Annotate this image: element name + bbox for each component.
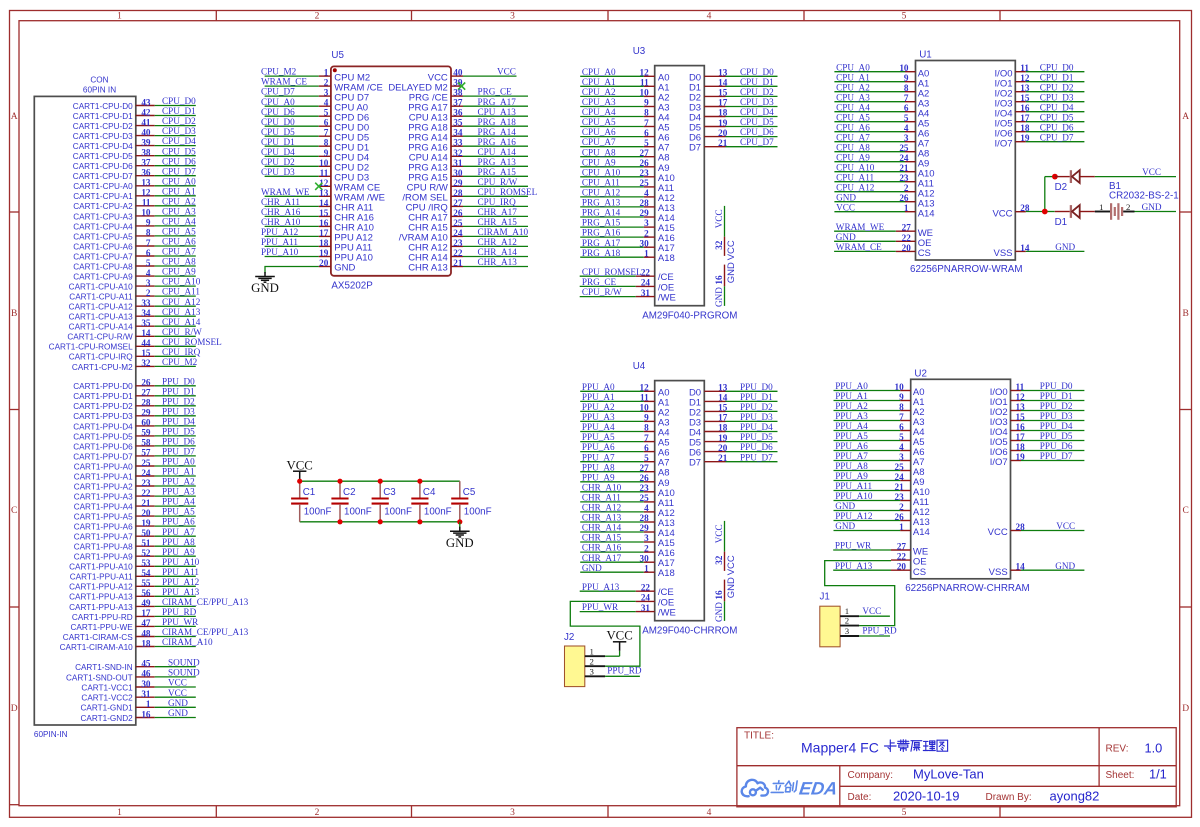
svg-text:CPU_M2: CPU_M2 [261, 67, 297, 77]
SRAM U2 62256PNARROW-CHRRAM body [905, 368, 1029, 594]
svg-text:CART1-GND2: CART1-GND2 [81, 714, 134, 723]
svg-text:1: 1 [117, 12, 122, 22]
svg-text:PRG_A16: PRG_A16 [582, 228, 621, 238]
op-amp/mapper IC U5 AX5202P body [331, 50, 451, 292]
U5 pin 7 CPU D5 [261, 127, 369, 144]
svg-text:C: C [11, 506, 17, 516]
CON pin 4 wire net CPU_A9 [73, 267, 196, 282]
svg-text:31: 31 [453, 158, 463, 168]
svg-text:CART1-PPU-A9: CART1-PPU-A9 [74, 553, 133, 562]
svg-text:3: 3 [146, 278, 151, 288]
VCC power at J2 pin 1 [606, 629, 632, 643]
svg-text:4: 4 [707, 808, 712, 818]
svg-text:PRG_A14: PRG_A14 [582, 208, 621, 218]
svg-text:PPU_WR: PPU_WR [162, 617, 199, 627]
svg-text:VSS: VSS [989, 567, 1008, 578]
svg-text:CPU_D2: CPU_D2 [162, 116, 196, 126]
U2 pin 22 OE [891, 552, 927, 568]
svg-text:17: 17 [319, 228, 329, 238]
svg-text:A: A [11, 112, 18, 122]
wire battery to GND [1135, 202, 1177, 212]
svg-text:CART1-CPU-A0: CART1-CPU-A0 [73, 182, 133, 191]
svg-text:15: 15 [319, 208, 329, 218]
CON pin 15 wire net CPU_IRQ [69, 347, 201, 362]
svg-text:CART1-PPU-A0: CART1-PPU-A0 [74, 462, 133, 471]
svg-text:CPU_A5: CPU_A5 [836, 112, 870, 122]
svg-text:20: 20 [902, 243, 912, 253]
svg-text:CR2032-BS-2-1: CR2032-BS-2-1 [1109, 190, 1179, 201]
CON pin 36 wire net CPU_D7 [73, 166, 196, 181]
svg-text:PPU_D6: PPU_D6 [162, 437, 195, 447]
svg-text:CPU_A1: CPU_A1 [836, 72, 870, 82]
svg-text:10: 10 [141, 208, 151, 218]
svg-text:CHR_A13: CHR_A13 [478, 257, 518, 267]
svg-text:WRAM_WE: WRAM_WE [261, 187, 310, 197]
svg-text:25: 25 [141, 458, 151, 468]
svg-text:9: 9 [644, 98, 649, 108]
U1 pin 27 WE [834, 222, 933, 239]
svg-text:CART1-CPU-D7: CART1-CPU-D7 [73, 172, 133, 181]
svg-text:62256PNARROW-WRAM: 62256PNARROW-WRAM [910, 264, 1023, 275]
svg-text:PPU_D2: PPU_D2 [162, 396, 195, 406]
U2 pin 25 A8 net PPU_A8 [834, 461, 925, 478]
svg-text:36: 36 [453, 108, 463, 118]
svg-text:D: D [11, 704, 18, 714]
svg-text:PPU_A5: PPU_A5 [162, 507, 195, 517]
svg-text:CPU_A12: CPU_A12 [836, 182, 875, 192]
svg-text:16: 16 [714, 275, 724, 285]
U1 pin 5 A5 net CPU_A5 [834, 112, 929, 129]
svg-text:PRG_A18: PRG_A18 [478, 117, 517, 127]
svg-text:CHR_A17: CHR_A17 [478, 207, 518, 217]
CON pin 41 wire net CPU_D2 [73, 116, 196, 131]
junction node at D1/D2 [1042, 174, 1058, 215]
svg-text:I/O7: I/O7 [995, 138, 1013, 149]
svg-text:1: 1 [324, 68, 329, 78]
U4 pin 16 GND vertical [714, 577, 737, 622]
svg-text:CPU_A0: CPU_A0 [836, 62, 870, 72]
svg-text:AM29F040-CHRROM: AM29F040-CHRROM [642, 625, 737, 636]
U2 pin 6 A4 net PPU_A4 [834, 421, 925, 438]
svg-text:CART1-CPU-M2: CART1-CPU-M2 [72, 363, 133, 372]
U4 pin 20 D6 net PPU_D6 [689, 442, 778, 458]
U5 pin 31 PRG A13 [408, 157, 528, 174]
svg-text:29: 29 [141, 408, 151, 418]
CON pin 47 wire net PPU_WR [71, 617, 200, 632]
svg-text:PPU_RD: PPU_RD [862, 626, 897, 636]
svg-text:9: 9 [324, 148, 329, 158]
svg-text:SOUND: SOUND [168, 657, 200, 667]
U1 pin 18 I/O6 net CPU_D6 [995, 122, 1085, 139]
CON pin 32 wire net CPU_M2 [72, 357, 198, 372]
J2 pin 1 [585, 642, 620, 657]
svg-text:CART1-PPU-WE: CART1-PPU-WE [71, 623, 134, 632]
svg-text:100nF: 100nF [424, 507, 452, 518]
svg-text:16: 16 [714, 590, 724, 600]
CON pin 53 wire net PPU_A10 [69, 557, 200, 572]
svg-text:CS: CS [913, 567, 926, 578]
svg-text:REV:: REV: [1106, 744, 1129, 755]
U2 pin 14 VSS [989, 561, 1085, 578]
svg-text:PPU_A3: PPU_A3 [835, 411, 868, 421]
U5 pin 18 PPU A11 [261, 237, 372, 254]
svg-text:CHR_A15: CHR_A15 [478, 217, 518, 227]
svg-text:13: 13 [319, 188, 329, 198]
svg-text:CART1-CPU-ROMSEL: CART1-CPU-ROMSEL [49, 343, 133, 352]
U5 pin 33 PRG A16 [408, 137, 528, 154]
svg-text:CART1-CPU-A1: CART1-CPU-A1 [73, 192, 133, 201]
svg-text:47: 47 [141, 618, 151, 628]
U2 pin 27 WE [833, 541, 928, 558]
svg-text:32: 32 [714, 555, 724, 565]
svg-text:PPU_A8: PPU_A8 [835, 461, 868, 471]
svg-text:CART1-CPU-A12: CART1-CPU-A12 [69, 303, 133, 312]
svg-text:1: 1 [644, 563, 649, 573]
svg-text:CHR_A11: CHR_A11 [261, 197, 300, 207]
svg-text:2: 2 [644, 228, 649, 238]
title block company/date rows [848, 766, 1167, 803]
svg-text:5: 5 [146, 258, 151, 268]
svg-text:100nF: 100nF [304, 507, 332, 518]
U3 pin 18 D4 net CPU_D4 [689, 107, 778, 123]
svg-text:45: 45 [141, 659, 151, 669]
U2 pin 3 A7 net PPU_A7 [834, 451, 925, 468]
CON pin 28 wire net PPU_D2 [73, 396, 196, 411]
battery B1 CR2032-BS-2-1 [1095, 181, 1179, 220]
svg-text:CART1-PPU-A13: CART1-PPU-A13 [69, 603, 133, 612]
svg-text:8: 8 [644, 108, 649, 118]
svg-text:27: 27 [902, 223, 912, 233]
CON pin 3 wire net CPU_A10 [69, 277, 201, 292]
svg-text:CPU_IRQ: CPU_IRQ [162, 347, 201, 357]
U4 pin 7 A5 net PPU_A5 [580, 432, 669, 448]
U2 pin 16 I/O4 net PPU_D4 [990, 421, 1085, 438]
svg-text:CS: CS [918, 248, 931, 259]
svg-text:PPU_A10: PPU_A10 [835, 491, 873, 501]
U3 pin 31 /WE [580, 287, 676, 303]
U1 pin 1 A14 net VCC [834, 202, 934, 219]
svg-text:37: 37 [141, 158, 151, 168]
svg-text:J2: J2 [564, 632, 574, 643]
U1 pin 10 A0 net CPU_A0 [834, 62, 929, 79]
svg-text:59: 59 [141, 428, 151, 438]
svg-text:PPU_A6: PPU_A6 [582, 442, 615, 452]
svg-text:7: 7 [644, 118, 649, 128]
J1 pin 3 net PPU_RD [840, 626, 897, 636]
U3 pin 4 A12 net CPU_A12 [580, 188, 675, 204]
svg-text:CART1-SND-IN: CART1-SND-IN [75, 663, 133, 672]
svg-text:PPU_D5: PPU_D5 [1040, 431, 1073, 441]
svg-text:Mapper4 FC: Mapper4 FC [801, 739, 879, 755]
U3 pin 22 /CE [580, 267, 674, 283]
U5 pin 36 CPU A13 [409, 107, 528, 124]
U5 pin 27 CPU /IRQ [406, 197, 528, 214]
svg-text:5: 5 [902, 12, 907, 22]
CON pin 2 wire net CPU_A11 [69, 287, 200, 302]
svg-text:CART1-PPU-A5: CART1-PPU-A5 [74, 513, 133, 522]
U3 pin 9 A3 net CPU_A3 [580, 97, 669, 114]
svg-text:33: 33 [141, 298, 151, 308]
U4 pin 22 /CE [580, 582, 674, 598]
U2 pin 12 I/O1 net PPU_D1 [990, 391, 1085, 408]
svg-text:CPU_D7: CPU_D7 [162, 166, 196, 176]
ground at U5 pin 20 [251, 272, 279, 295]
U4 pin 11 A1 net PPU_A1 [580, 392, 669, 408]
svg-text:CPU_D3: CPU_D3 [1040, 92, 1074, 102]
svg-text:CPU_D4: CPU_D4 [1040, 102, 1074, 112]
svg-text:GND: GND [334, 263, 355, 274]
U1 pin 26 A13 net GND [834, 192, 934, 209]
svg-text:PPU_D4: PPU_D4 [1040, 421, 1073, 431]
svg-text:PPU_A8: PPU_A8 [582, 462, 615, 472]
svg-text:1: 1 [644, 248, 649, 258]
svg-text:3: 3 [845, 626, 850, 636]
svg-text:CPU_A4: CPU_A4 [836, 102, 870, 112]
svg-text:PPU_A1: PPU_A1 [582, 392, 615, 402]
U3 pin 11 A1 net CPU_A1 [580, 77, 669, 93]
svg-text:TITLE:: TITLE: [744, 731, 774, 742]
capacitor C4 100nF [411, 481, 451, 522]
svg-text:19: 19 [319, 248, 329, 258]
U2 pin 8 A2 net PPU_A2 [834, 401, 925, 418]
svg-text:CHR_A16: CHR_A16 [261, 207, 301, 217]
flash ROM U4 AM29F040-CHRROM body [633, 361, 738, 636]
svg-text:CART1-CPU-D6: CART1-CPU-D6 [73, 162, 133, 171]
svg-text:CPU_D2: CPU_D2 [740, 87, 774, 97]
U5 pin 20 GND [265, 258, 356, 274]
svg-text:22: 22 [641, 267, 651, 277]
svg-text:VCC: VCC [988, 527, 1008, 538]
svg-text:8: 8 [324, 138, 329, 148]
svg-text:PPU_A1: PPU_A1 [835, 391, 868, 401]
U3 pin 29 A14 net PRG_A14 [580, 208, 675, 224]
svg-text:CART1-SND-OUT: CART1-SND-OUT [66, 673, 133, 682]
svg-text:CART1-CPU-A13: CART1-CPU-A13 [69, 313, 133, 322]
svg-text:CPU_D5: CPU_D5 [162, 146, 196, 156]
svg-text:CART1-PPU-A13: CART1-PPU-A13 [69, 593, 133, 602]
svg-text:CHR_A17: CHR_A17 [582, 553, 622, 563]
svg-text:24: 24 [641, 278, 651, 288]
U5 pin 24 /VRAM A10 [399, 227, 529, 244]
svg-text:PPU_A2: PPU_A2 [835, 401, 868, 411]
svg-text:I/O7: I/O7 [990, 457, 1008, 468]
U3 pin 23 A10 net CPU_A10 [580, 167, 675, 183]
CON pin 55 wire net PPU_A12 [69, 577, 200, 592]
U5 pin 6 CPU D0 [261, 117, 369, 134]
svg-text:57: 57 [141, 448, 151, 458]
svg-text:CHR_A15: CHR_A15 [582, 533, 622, 543]
CON pin 34 wire net CPU_A13 [69, 307, 201, 322]
svg-text:CPU_A6: CPU_A6 [582, 127, 616, 137]
U2 pin 13 I/O2 net PPU_D2 [990, 401, 1085, 418]
svg-text:PPU_D5: PPU_D5 [162, 427, 195, 437]
svg-text:C2: C2 [343, 487, 356, 498]
U5 pin 37 PRG A17 [408, 97, 528, 114]
svg-text:CART1-CPU-D1: CART1-CPU-D1 [73, 112, 133, 121]
svg-text:CPU_A11: CPU_A11 [162, 287, 200, 297]
CON pin 29 wire net PPU_D3 [73, 406, 196, 421]
U5 pin 21 CHR A13 [408, 257, 528, 274]
svg-text:CHR_A13: CHR_A13 [582, 513, 622, 523]
svg-text:CPU_A6: CPU_A6 [162, 237, 196, 247]
svg-text:1: 1 [146, 699, 151, 709]
svg-text:34: 34 [141, 308, 151, 318]
svg-text:34: 34 [453, 128, 463, 138]
U4 pin 1 A18 net GND [580, 563, 675, 579]
U4 pin 6 A6 net PPU_A6 [580, 442, 669, 458]
U3 pin 1 A18 net PRG_A18 [580, 248, 675, 264]
svg-text:6: 6 [644, 128, 649, 138]
CON pin 37 wire net CPU_D6 [73, 156, 196, 171]
svg-text:26: 26 [141, 378, 151, 388]
svg-text:CPU_D3: CPU_D3 [162, 126, 196, 136]
U3 pin 25 A11 net CPU_A11 [580, 178, 674, 194]
svg-text:CART1-VCC2: CART1-VCC2 [81, 694, 133, 703]
U2 pin 28 VCC [988, 521, 1085, 538]
svg-text:CHR_A14: CHR_A14 [582, 523, 622, 533]
flash ROM U3 AM29F040-PRGROM body [633, 46, 738, 321]
svg-text:GND: GND [168, 698, 188, 708]
wire VCC bus top [300, 480, 460, 482]
svg-text:GND: GND [836, 232, 856, 242]
svg-text:GND: GND [582, 563, 602, 573]
capacitor C5 100nF [451, 481, 491, 522]
svg-text:CPU_A0: CPU_A0 [582, 67, 616, 77]
diode D1 [1055, 205, 1095, 228]
svg-text:CON: CON [90, 75, 108, 84]
svg-text:22: 22 [141, 488, 151, 498]
svg-text:2: 2 [315, 808, 320, 818]
svg-text:A14: A14 [913, 527, 930, 538]
wire GND stem below C5 [459, 522, 461, 527]
svg-text:B: B [11, 309, 17, 319]
svg-text:VCC: VCC [606, 629, 632, 643]
svg-text:43: 43 [141, 97, 151, 107]
connector CON 60PIN IN [34, 75, 136, 739]
U5 pin 40 VCC [428, 67, 517, 84]
U1 pin 6 A4 net CPU_A4 [834, 102, 929, 119]
U1 pin 23 A11 net CPU_A11 [834, 172, 934, 189]
connector J1 [820, 592, 841, 647]
U1 pin 3 A7 net CPU_A7 [834, 132, 929, 149]
svg-text:CART1-PPU-D7: CART1-PPU-D7 [73, 452, 133, 461]
CON pin 6 wire net CPU_A7 [73, 247, 196, 262]
U2 pin 18 I/O6 net PPU_D6 [990, 441, 1085, 458]
svg-text:9: 9 [644, 413, 649, 423]
svg-text:CART1-PPU-D2: CART1-PPU-D2 [73, 402, 133, 411]
U1 pin 28 VCC [992, 203, 1029, 219]
CON pin 30 wire net VCC [81, 678, 195, 693]
svg-text:AX5202P: AX5202P [331, 281, 373, 292]
svg-text:24: 24 [641, 593, 651, 603]
svg-text:16: 16 [319, 218, 329, 228]
svg-text:CPU_D0: CPU_D0 [1040, 62, 1074, 72]
CON pin 44 wire net CPU_ROMSEL [49, 337, 222, 352]
svg-text:21: 21 [453, 258, 463, 268]
svg-text:AM29F040-PRGROM: AM29F040-PRGROM [642, 310, 737, 321]
svg-text:D: D [1182, 704, 1189, 714]
svg-text:CPU_A5: CPU_A5 [162, 227, 196, 237]
svg-text:PPU_D7: PPU_D7 [740, 452, 773, 462]
svg-text:PPU_A13: PPU_A13 [835, 561, 873, 571]
CON pin 17 wire net PPU_RD [72, 607, 197, 622]
U4 pin 29 A14 net CHR_A14 [580, 523, 675, 539]
CON pin 40 wire net CPU_D3 [73, 126, 196, 141]
U4 pin 24 /OE [636, 593, 675, 609]
svg-text:D7: D7 [689, 143, 701, 154]
U5 pin 2 WRAM /CE [261, 77, 383, 94]
svg-text:3: 3 [644, 533, 649, 543]
U3 pin 2 A16 net PRG_A16 [580, 228, 675, 244]
U1 pin 20 CS [834, 242, 931, 259]
svg-text:PPU_A11: PPU_A11 [162, 567, 199, 577]
U4 pin 32 VCC vertical [714, 521, 737, 575]
svg-text:CPU_D5: CPU_D5 [1040, 112, 1074, 122]
U2 pin 2 A12 net GND [834, 501, 930, 518]
svg-text:CPU_A10: CPU_A10 [162, 277, 201, 287]
svg-text:PPU_A6: PPU_A6 [162, 517, 195, 527]
svg-text:CPU_A13: CPU_A13 [162, 307, 201, 317]
svg-text:CPU_A8: CPU_A8 [162, 257, 196, 267]
U3 pin 21 D7 net CPU_D7 [689, 137, 778, 154]
svg-text:PPU_A4: PPU_A4 [835, 421, 868, 431]
svg-text:CPU_D0: CPU_D0 [261, 117, 295, 127]
U2 pin 7 A3 net PPU_A3 [834, 411, 925, 428]
CON pin 19 wire net PPU_A6 [74, 517, 196, 532]
svg-text:PPU_RD: PPU_RD [607, 665, 642, 675]
svg-text:J1: J1 [820, 592, 830, 603]
svg-text:VCC: VCC [168, 678, 187, 688]
CON pin 5 wire net CPU_A8 [73, 257, 196, 272]
svg-text:CART1-CPU-A5: CART1-CPU-A5 [73, 232, 133, 241]
svg-text:12: 12 [319, 178, 329, 188]
U3 pin 20 D6 net CPU_D6 [689, 127, 778, 143]
svg-text:PPU_A11: PPU_A11 [261, 237, 298, 247]
svg-text:35: 35 [141, 318, 151, 328]
CON pin 39 wire net CPU_D4 [73, 136, 196, 151]
svg-text:13: 13 [141, 178, 151, 188]
U2 pin 10 A0 net PPU_A0 [834, 381, 925, 398]
svg-text:ayong82: ayong82 [1050, 788, 1100, 803]
svg-text:PPU_A2: PPU_A2 [582, 402, 615, 412]
svg-text:CART1-CPU-D0: CART1-CPU-D0 [73, 102, 133, 111]
svg-text:SOUND: SOUND [168, 668, 200, 678]
svg-text:24: 24 [141, 468, 151, 478]
svg-text:CPU_D6: CPU_D6 [162, 156, 196, 166]
svg-text:19: 19 [141, 518, 151, 528]
svg-text:CPU_ROMSEL: CPU_ROMSEL [582, 267, 642, 277]
svg-text:3: 3 [510, 12, 515, 22]
svg-text:CPU_D0: CPU_D0 [162, 96, 196, 106]
svg-text:CPU_D4: CPU_D4 [261, 147, 295, 157]
svg-text:VCC: VCC [714, 524, 724, 543]
svg-text:48: 48 [141, 628, 151, 638]
CON pin 56 wire net PPU_A13 [69, 587, 200, 602]
svg-text:CART1-PPU-A2: CART1-PPU-A2 [74, 482, 133, 491]
svg-text:CPU_D3: CPU_D3 [740, 97, 774, 107]
svg-text:CPU_M2: CPU_M2 [162, 357, 198, 367]
U3 pin 12 A0 net CPU_A0 [580, 67, 669, 83]
U2 pin 20 CS [833, 561, 926, 578]
svg-text:31: 31 [141, 689, 151, 699]
U2 pin 21 A10 net PPU_A11 [834, 481, 930, 498]
U1 pin 13 I/O2 net CPU_D2 [995, 82, 1085, 99]
U2 pin 9 A1 net PPU_A1 [834, 391, 925, 408]
svg-text:CPU_A3: CPU_A3 [582, 97, 616, 107]
CON pin 38 wire net CPU_D5 [73, 146, 196, 161]
svg-text:35: 35 [453, 118, 463, 128]
svg-text:CPU_D1: CPU_D1 [740, 77, 774, 87]
